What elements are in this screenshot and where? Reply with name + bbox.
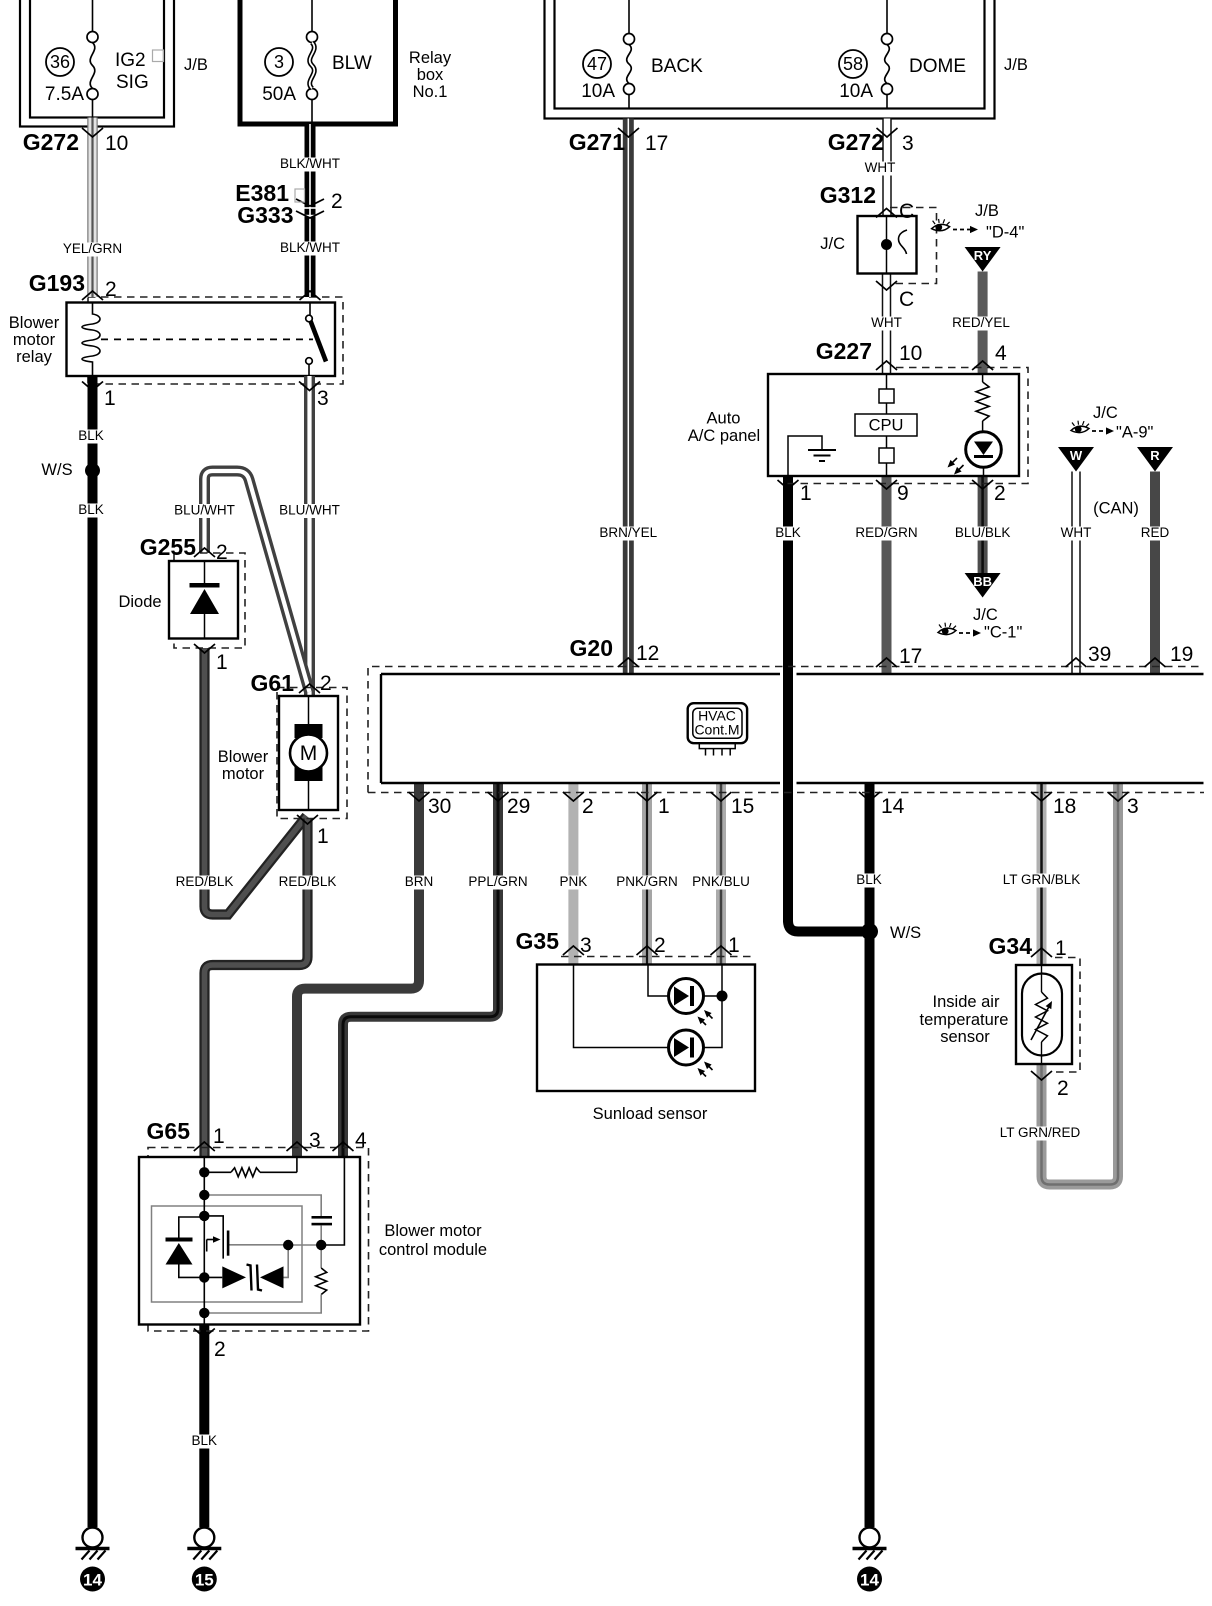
svg-text:2: 2 (331, 190, 343, 213)
svg-text:G272: G272 (23, 129, 79, 155)
svg-text:10A: 10A (839, 81, 873, 102)
svg-text:RED/GRN: RED/GRN (855, 525, 917, 540)
svg-text:Relay: Relay (409, 49, 452, 67)
svg-text:1: 1 (728, 934, 740, 957)
svg-text:1: 1 (658, 795, 670, 818)
svg-text:sensor: sensor (940, 1028, 990, 1046)
svg-text:motor: motor (222, 765, 265, 783)
svg-text:"D-4": "D-4" (986, 224, 1024, 242)
svg-text:Sunload sensor: Sunload sensor (593, 1105, 708, 1123)
svg-text:29: 29 (507, 795, 530, 818)
svg-text:RED/BLK: RED/BLK (176, 874, 234, 889)
svg-text:G35: G35 (516, 928, 560, 954)
svg-text:3: 3 (1127, 795, 1139, 818)
svg-text:G272: G272 (828, 129, 884, 155)
svg-text:C: C (899, 288, 914, 311)
svg-text:Auto: Auto (707, 410, 741, 428)
svg-text:J/B: J/B (975, 202, 999, 220)
svg-text:G34: G34 (989, 933, 1033, 959)
svg-text:G65: G65 (147, 1118, 191, 1144)
svg-text:17: 17 (645, 132, 668, 155)
svg-text:1: 1 (1055, 937, 1067, 960)
svg-text:17: 17 (899, 645, 922, 668)
svg-text:10A: 10A (581, 81, 615, 102)
svg-text:1: 1 (800, 482, 812, 505)
svg-text:J/C: J/C (1093, 404, 1118, 422)
svg-text:BLK: BLK (78, 428, 104, 443)
svg-text:WHT: WHT (1061, 525, 1092, 540)
svg-text:G333: G333 (237, 202, 293, 228)
svg-text:IG2: IG2 (115, 50, 146, 71)
svg-text:BLU/WHT: BLU/WHT (174, 503, 235, 518)
svg-text:30: 30 (428, 795, 451, 818)
svg-text:58: 58 (843, 54, 863, 74)
svg-text:14: 14 (83, 1571, 102, 1590)
svg-text:3: 3 (580, 934, 592, 957)
svg-text:J/B: J/B (184, 56, 208, 74)
svg-text:12: 12 (636, 642, 659, 665)
svg-text:4: 4 (355, 1129, 367, 1152)
svg-text:No.1: No.1 (413, 83, 448, 101)
svg-text:1: 1 (213, 1125, 225, 1148)
svg-text:BLK: BLK (775, 525, 801, 540)
svg-text:G20: G20 (570, 635, 613, 661)
svg-text:1: 1 (104, 387, 116, 410)
svg-text:J/B: J/B (1004, 56, 1028, 74)
svg-text:G193: G193 (29, 270, 85, 296)
svg-text:Diode: Diode (118, 593, 161, 611)
svg-text:14: 14 (881, 795, 905, 818)
svg-text:relay: relay (16, 348, 53, 366)
svg-text:J/C: J/C (820, 235, 845, 253)
svg-text:PNK/GRN: PNK/GRN (616, 874, 678, 889)
svg-text:BACK: BACK (651, 56, 703, 77)
svg-text:BRN/YEL: BRN/YEL (599, 525, 657, 540)
svg-text:WHT: WHT (871, 315, 902, 330)
svg-text:BLW: BLW (332, 53, 372, 74)
svg-text:W/S: W/S (41, 461, 72, 479)
svg-text:10: 10 (899, 342, 922, 365)
svg-text:WHT: WHT (865, 160, 896, 175)
svg-text:2: 2 (994, 482, 1006, 505)
svg-text:G61: G61 (251, 670, 295, 696)
svg-text:(CAN): (CAN) (1093, 500, 1139, 518)
svg-text:3: 3 (902, 132, 914, 155)
svg-text:Blower: Blower (218, 748, 269, 766)
svg-text:PNK/BLU: PNK/BLU (692, 874, 750, 889)
svg-text:RED/YEL: RED/YEL (952, 315, 1010, 330)
svg-text:"A-9": "A-9" (1116, 424, 1154, 442)
svg-text:BLK: BLK (192, 1433, 218, 1448)
svg-text:Blower: Blower (9, 314, 60, 332)
svg-text:W: W (1070, 448, 1083, 463)
svg-text:2: 2 (320, 672, 332, 695)
svg-text:W/S: W/S (890, 924, 921, 942)
svg-text:A/C panel: A/C panel (688, 427, 760, 445)
svg-text:G271: G271 (569, 129, 625, 155)
svg-text:R: R (1150, 448, 1160, 463)
svg-text:1: 1 (317, 825, 329, 848)
svg-text:BLK: BLK (856, 872, 882, 887)
svg-text:temperature: temperature (920, 1011, 1009, 1029)
svg-text:36: 36 (50, 52, 70, 72)
svg-text:G255: G255 (140, 534, 196, 560)
svg-text:2: 2 (216, 541, 228, 564)
svg-text:2: 2 (214, 1338, 226, 1361)
svg-text:LT GRN/RED: LT GRN/RED (1000, 1125, 1081, 1140)
svg-text:Cont.M: Cont.M (694, 722, 739, 738)
svg-text:2: 2 (582, 795, 594, 818)
svg-text:BLU/BLK: BLU/BLK (955, 525, 1011, 540)
svg-text:2: 2 (105, 278, 117, 301)
svg-text:3: 3 (317, 387, 329, 410)
svg-text:RY: RY (974, 248, 992, 263)
svg-text:2: 2 (654, 934, 666, 957)
svg-text:PNK: PNK (560, 874, 588, 889)
svg-text:M: M (300, 742, 318, 765)
svg-text:14: 14 (860, 1571, 879, 1590)
svg-text:RED: RED (1141, 525, 1170, 540)
svg-text:10: 10 (105, 132, 128, 155)
svg-text:motor: motor (13, 331, 56, 349)
svg-text:BB: BB (973, 574, 992, 589)
svg-text:19: 19 (1170, 643, 1193, 666)
svg-text:"C-1": "C-1" (984, 624, 1022, 642)
svg-text:BLK/WHT: BLK/WHT (280, 240, 340, 255)
svg-text:DOME: DOME (909, 56, 966, 77)
svg-text:G312: G312 (820, 182, 876, 208)
svg-text:BLK/WHT: BLK/WHT (280, 156, 340, 171)
svg-text:Blower motor: Blower motor (384, 1222, 482, 1240)
svg-text:SIG: SIG (116, 72, 149, 93)
svg-text:1: 1 (216, 651, 228, 674)
svg-text:BLU/WHT: BLU/WHT (279, 503, 340, 518)
svg-text:CPU: CPU (869, 417, 904, 435)
svg-text:50A: 50A (262, 84, 296, 105)
svg-text:3: 3 (309, 1129, 321, 1152)
svg-text:9: 9 (897, 482, 909, 505)
svg-text:39: 39 (1088, 643, 1111, 666)
svg-text:BLK: BLK (78, 502, 104, 517)
svg-text:47: 47 (587, 54, 607, 74)
svg-text:G227: G227 (816, 338, 872, 364)
svg-text:15: 15 (195, 1571, 214, 1590)
svg-text:C: C (899, 200, 914, 223)
svg-text:YEL/GRN: YEL/GRN (63, 241, 122, 256)
svg-text:15: 15 (731, 795, 754, 818)
svg-text:2: 2 (1057, 1077, 1069, 1100)
svg-text:control module: control module (379, 1241, 487, 1259)
svg-text:PPL/GRN: PPL/GRN (468, 874, 527, 889)
svg-text:4: 4 (995, 342, 1007, 365)
svg-text:LT GRN/BLK: LT GRN/BLK (1003, 872, 1081, 887)
svg-text:3: 3 (274, 52, 284, 72)
svg-text:RED/BLK: RED/BLK (279, 874, 337, 889)
svg-text:7.5A: 7.5A (45, 84, 84, 105)
svg-text:Inside air: Inside air (933, 993, 1000, 1011)
svg-text:J/C: J/C (973, 606, 998, 624)
svg-text:BRN: BRN (405, 874, 434, 889)
svg-text:18: 18 (1053, 795, 1076, 818)
svg-text:box: box (417, 66, 444, 84)
